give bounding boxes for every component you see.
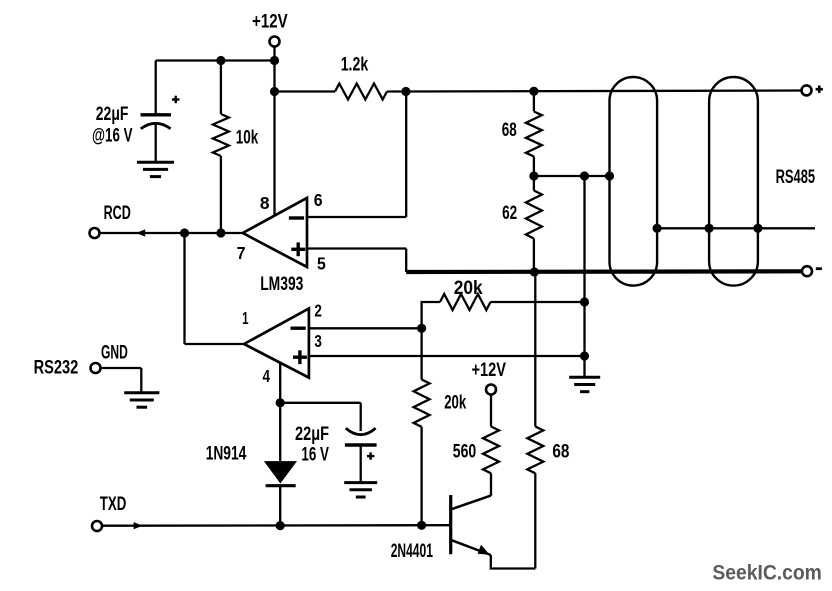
svg-text:+12V: +12V [472,359,507,381]
svg-text:68: 68 [502,119,517,141]
resistor 20k lower [414,380,430,427]
wire RS485 minus line [406,269,802,274]
svg-text:7: 7 [237,243,246,263]
wire pin 6 riser [405,92,407,218]
wire pin 4 dropper [279,362,281,403]
junction dot 1.2k right [401,87,410,96]
wire diode cathode lead [279,486,281,526]
op-amp U2 minus input mark [291,327,306,330]
svg-text:4: 4 [263,366,271,386]
wire 20k top right lead [491,301,585,303]
diode D1 cathode bar [266,484,296,487]
capacitor C1 22uF plate top [141,113,172,116]
resistor 68 bottom [527,427,543,474]
ground G2 [124,391,159,394]
svg-text:RCD: RCD [104,202,131,224]
op-amp U2 plus input mark [293,356,307,359]
label plus sign RS485 [816,88,823,91]
wire capacitor C1 top lead [155,61,157,115]
svg-text:62: 62 [502,202,517,224]
wire pin 2 horizontal [309,327,422,329]
junction dot pin2 20k node [417,324,426,333]
junction dot loop2 left [705,224,714,233]
svg-text:6: 6 [314,190,323,210]
wire 1.2k right lead [387,90,406,92]
ground under C1 [137,161,174,164]
svg-text:GND: GND [101,342,128,364]
junction dot minus line 68 column [530,267,539,276]
wire 560 bottom lead [490,473,492,496]
wire C2 top lead [360,403,362,431]
wire pin 5 horizontal [307,247,406,249]
wire pin 5 dropper [405,249,407,273]
ground under C2 [344,481,377,484]
resistor 560 [483,427,499,474]
junction dot top rail 10k [216,56,225,65]
wire 20k lower top lead [420,328,422,379]
resistor 10k [213,114,229,156]
wire RS485 plus line [406,91,802,92]
terminal RCD [90,228,100,238]
junction dot pin4 node [276,398,285,407]
op-amp U2 triangle [244,309,309,378]
op-amp U1 minus input mark [289,216,304,219]
svg-text:SeekIC.com: SeekIC.com [712,562,821,585]
svg-text:560: 560 [453,441,476,463]
wire 68 bottom to emitter row [534,473,536,568]
svg-text:1N914: 1N914 [206,443,247,465]
wire pin 8 supply drop [273,92,275,217]
svg-text:+12V: +12V [252,10,288,32]
terminal RS232 GND [91,363,101,373]
resistor 62 [526,191,542,239]
junction dot loop2 right [753,224,762,233]
wire mid node to loop [534,175,610,177]
capacitor C2 plus sign [367,455,374,457]
junction dot 68 top on plus line [529,87,538,96]
junction dot supply 1.2k row [270,87,279,96]
op-amp U1 plus input mark [291,248,305,251]
wire top rail [156,59,275,61]
wire TXD line [102,524,451,527]
terminal TXD [92,521,102,531]
wire GND horizontal [101,367,142,369]
ground G4 [569,376,600,379]
transistor Q1 emitter [452,540,491,555]
junction dot diode TXD [276,521,285,530]
svg-text:1: 1 [242,308,248,328]
junction dot mid node ground branch [580,171,589,180]
svg-text:1.2k: 1.2k [341,54,369,76]
wire pin 6 horizontal [307,216,406,218]
junction dot 10k/RCD [216,228,225,237]
wire ground column [583,176,585,377]
wire resistor 10k top lead [220,61,222,115]
wire diode anode lead [279,403,281,462]
svg-text:16 V: 16 V [301,444,329,466]
wire pin4 node to C2 [280,402,361,404]
wire resistor 10k bottom lead [220,156,222,233]
svg-text:20k: 20k [444,391,466,413]
junction dot pin3 ground column [580,351,589,360]
wire U2 output [185,343,245,345]
svg-text:2N4401: 2N4401 [391,540,433,562]
wire 20k top left corner [422,302,440,328]
junction dot 20k TXD [417,521,426,530]
wire pin 3 horizontal [309,355,585,357]
transistor Q1 emitter arrowhead [478,545,490,555]
svg-text:8: 8 [260,193,270,213]
diode D1 1N914 [265,462,296,483]
capacitor C2 straight plate [345,443,377,446]
junction dot loop1 right [653,224,662,233]
junction dot mid node loop1 [605,171,614,180]
terminal RS485 minus [802,266,812,276]
svg-text:RS232: RS232 [34,357,79,379]
svg-text:22μF: 22μF [295,423,329,445]
power terminal +12V top [270,37,280,47]
wire GND dropper [140,368,142,393]
twisted pair loop 1 [610,77,658,286]
arrow on TXD line pointing right [134,522,143,529]
wire 1.2k left lead [275,90,336,92]
op-amp U1 LM393 triangle [243,198,307,267]
svg-text:@16 V: @16 V [92,125,133,147]
wire supply column to 1.2k row [273,61,275,92]
capacitor C1 plus sign [172,98,180,100]
terminal RS485 plus [802,85,812,95]
svg-text:10k: 10k [236,127,259,149]
svg-text:2: 2 [314,301,322,321]
junction dot feedback/RCD [180,228,189,237]
wire 560 top lead [490,395,492,427]
wire 20k lower bottom lead [420,427,422,526]
transistor Q1 collector [452,496,491,510]
svg-text:LM393: LM393 [260,273,303,295]
wire emitter corner [491,555,536,569]
junction dot 20k ground column [580,297,589,306]
capacitor C1 curved plate [141,123,171,129]
svg-text:RS485: RS485 [776,166,816,188]
svg-text:68: 68 [552,441,569,463]
wire 68 bottom top lead [534,272,536,427]
label minus sign RS485 [816,267,822,270]
capacitor C2 curved plate [346,428,376,435]
wire 68 bottom lead to node [533,157,535,177]
wire 68 top lead [533,91,535,111]
resistor 1.2k [335,84,387,100]
wire feedback vertical [183,233,185,344]
wire 62 top lead [533,176,535,191]
svg-text:22μF: 22μF [96,103,129,125]
twisted pair loop 2 [709,77,758,286]
wire 62 bottom lead [533,239,535,273]
svg-text:20k: 20k [454,277,483,299]
resistor 20k top [440,294,491,310]
transistor Q1 base bar [449,495,452,554]
wire C2 bottom lead [360,445,362,483]
svg-text:5: 5 [317,253,326,273]
wire RS485 middle stub [657,227,815,229]
resistor 68 top [526,112,542,157]
junction dot top rail supply [270,56,279,65]
wire +12V terminal drop [273,47,275,61]
wire RCD line [100,232,243,234]
arrow on RCD line pointing left [136,229,145,236]
power terminal +12V mid [486,385,496,395]
svg-text:TXD: TXD [100,493,127,515]
wire capacitor C1 bottom lead [155,125,157,163]
junction dot 68/62 node [529,171,538,180]
svg-text:3: 3 [314,331,322,351]
